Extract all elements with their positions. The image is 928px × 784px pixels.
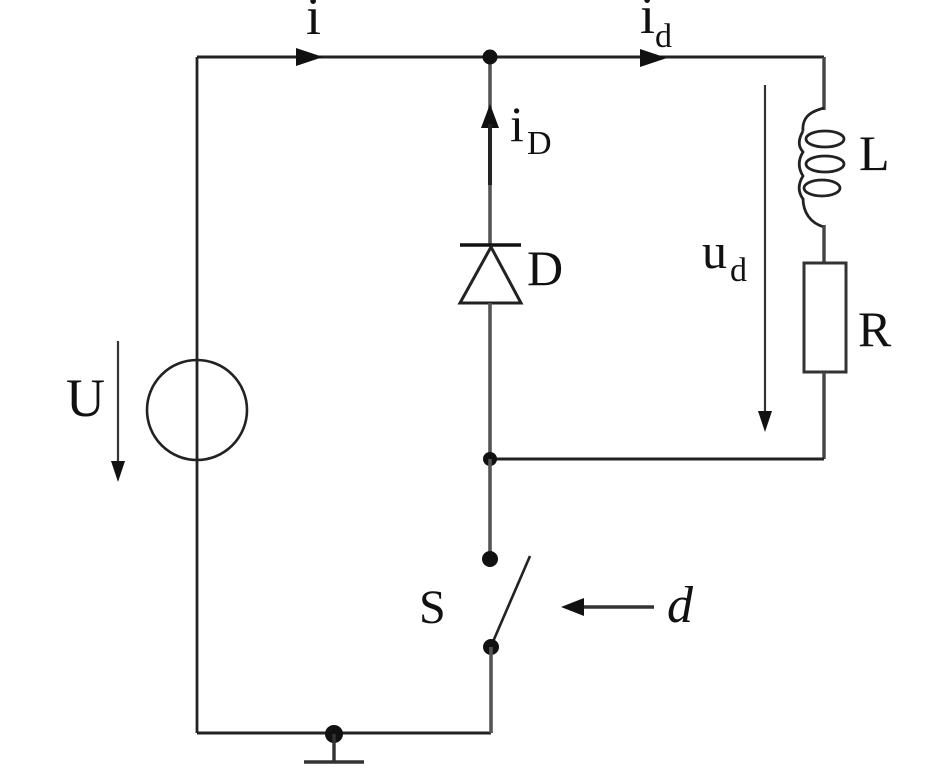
arrow U [111,341,125,482]
resistor R [804,263,846,372]
svg-text:S: S [419,581,446,634]
wire stub below R [822,372,825,459]
switch S [482,551,498,567]
wire switch upper [488,459,492,552]
ground [304,725,364,762]
svg-text:L: L [859,125,890,181]
wire switch lower [489,647,493,733]
svg-text:i: i [306,0,321,46]
wire left vertical [196,57,199,733]
wire diode branch lower [488,303,492,459]
inductor L [799,108,844,227]
svg-text:u: u [702,223,727,279]
wire right vertical top [822,57,825,110]
diode D [460,245,521,303]
wire bottom-right horizontal [490,458,824,461]
svg-text:U: U [66,368,105,428]
source U circle [147,360,247,460]
svg-text:i: i [510,96,524,152]
wire top horizontal [197,56,824,59]
svg-text:d: d [655,18,672,55]
svg-text:i: i [640,0,655,45]
svg-text:d: d [730,252,747,289]
arrow i_D [481,104,499,128]
wire diode branch upper [488,57,492,245]
svg-text:D: D [527,125,552,162]
arrow i_d [640,49,667,67]
node mid junction [483,452,497,466]
node top junction [483,50,498,65]
wire stub between L and R [822,225,825,263]
wire bottom horizontal [197,732,491,735]
svg-text:d: d [667,577,694,634]
arrow i [296,48,323,66]
arrow u_d [758,85,772,432]
arrow d [561,598,654,616]
svg-text:D: D [527,240,563,296]
svg-text:R: R [858,301,892,357]
